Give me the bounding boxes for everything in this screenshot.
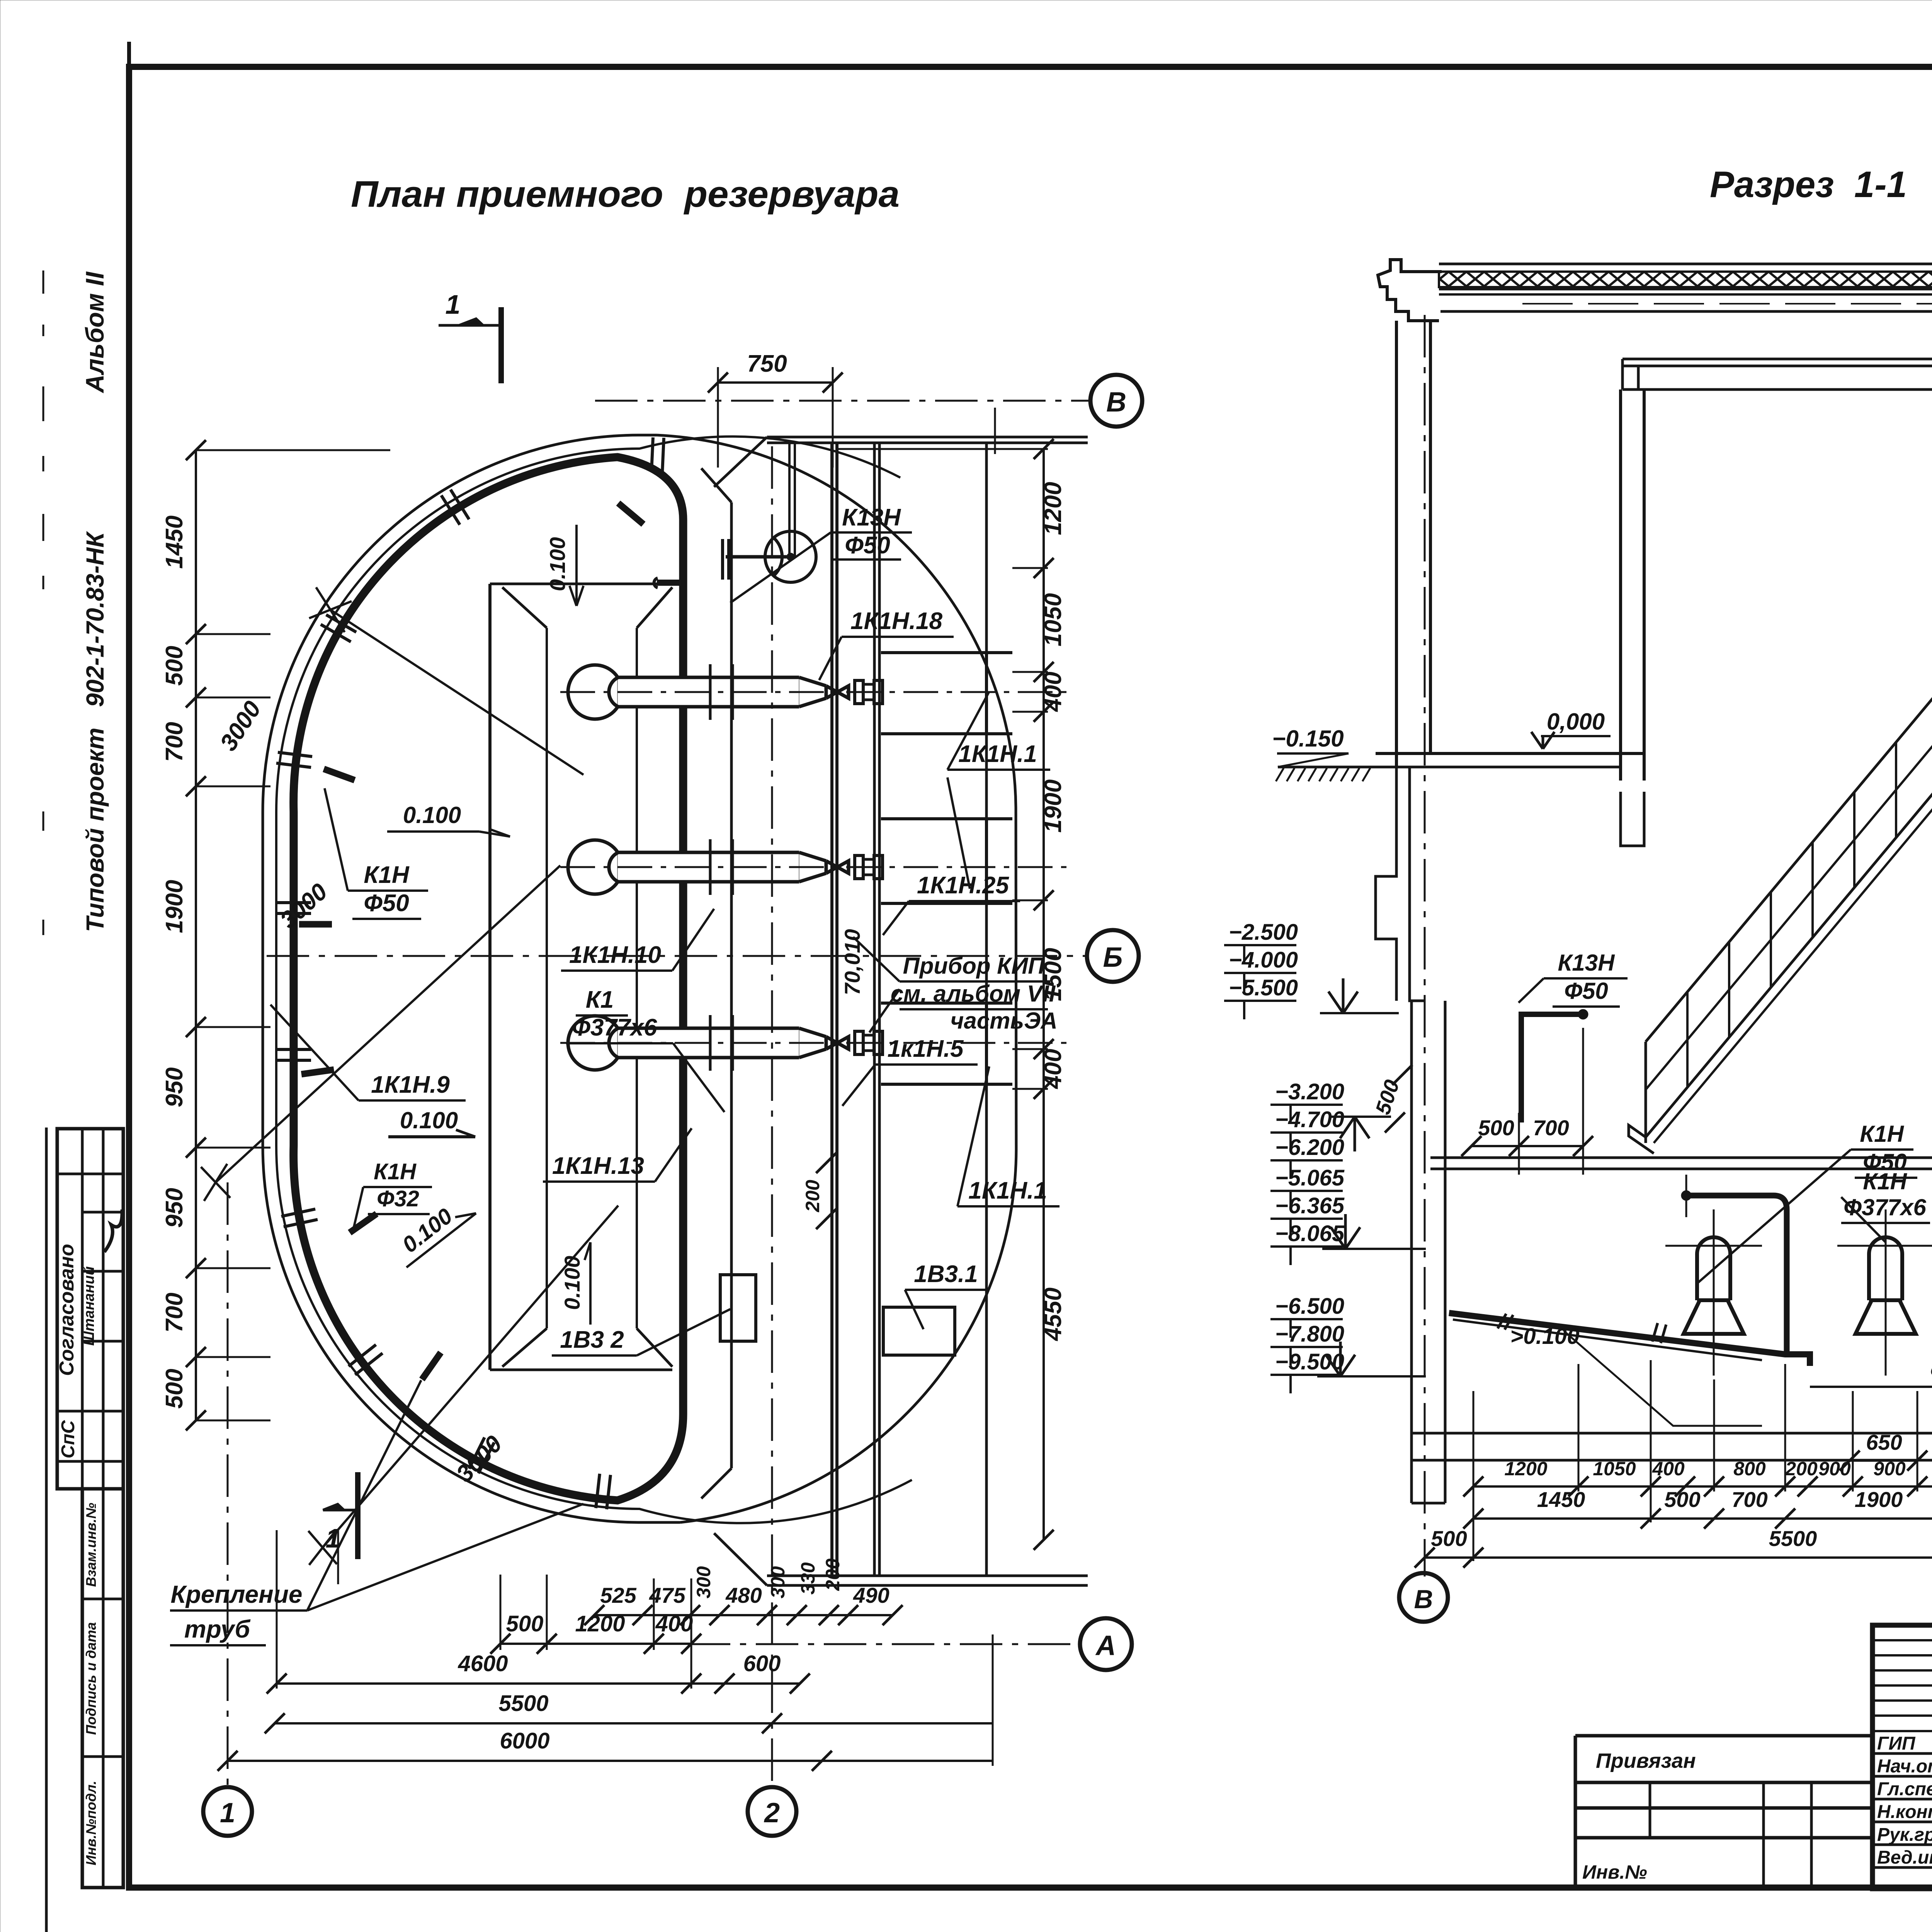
svg-text:Ф50: Ф50 [1564, 978, 1608, 1004]
svg-text:525: 525 [600, 1583, 636, 1607]
pump axis dash-dot y=2244 [560, 866, 1066, 868]
axis V horizontal dash-dot [595, 400, 1090, 402]
niche 1K1N.1 lower [881, 1003, 1012, 1084]
svg-text:Рук.гр.: Рук.гр. [1877, 1825, 1932, 1845]
svg-text:700: 700 [161, 722, 188, 762]
stair bottom foot [1629, 1042, 1654, 1153]
svg-text:−5.500: −5.500 [1229, 975, 1298, 1000]
left wall below ground [1376, 767, 1396, 1001]
svg-text:Н.контр.: Н.контр. [1877, 1802, 1932, 1822]
roof slab lines [1439, 288, 1932, 291]
svg-text:700: 700 [1533, 1116, 1569, 1140]
svg-text:Типовой проект 902-1-70.83-Н: Типовой проект 902-1-70.83-НК [81, 531, 109, 932]
svg-text:Б: Б [1103, 942, 1123, 973]
svg-text:650: 650 [1866, 1430, 1902, 1454]
svg-text:0.100: 0.100 [403, 802, 461, 828]
section mark 1 bottom [323, 1509, 358, 1512]
svg-text:Привязан: Привязан [1596, 1749, 1696, 1772]
niche middle [881, 819, 1012, 903]
svg-text:1К1Н.13: 1К1Н.13 [552, 1153, 644, 1179]
svg-text:1В3 2: 1В3 2 [560, 1327, 624, 1353]
left dimension chain [195, 450, 197, 1420]
svg-text:1: 1 [446, 289, 461, 320]
svg-text:1450: 1450 [161, 515, 188, 569]
svg-text:6000: 6000 [500, 1728, 549, 1753]
svg-text:Гл.спец.: Гл.спец. [1877, 1779, 1932, 1799]
sump funnel bottom [490, 1328, 672, 1370]
svg-text:Прибор КИП: Прибор КИП [903, 953, 1046, 979]
svg-text:1050: 1050 [1593, 1458, 1636, 1480]
svg-text:−5.065: −5.065 [1275, 1165, 1345, 1190]
svg-text:Крепление: Крепление [170, 1580, 302, 1608]
svg-text:частьЭА: частьЭА [950, 1008, 1057, 1034]
wall collar [709, 839, 712, 895]
stair posts [1645, 1042, 1647, 1137]
svg-text:1900: 1900 [1040, 779, 1066, 833]
svg-text:950: 950 [161, 1067, 188, 1107]
reservoir outer wall second line [276, 437, 912, 1523]
reservoir bottom right arc segment [680, 1150, 1016, 1522]
svg-text:1200: 1200 [575, 1611, 625, 1636]
bottom dims row 4 [275, 1722, 993, 1725]
svg-text:1К1Н.1: 1К1Н.1 [958, 741, 1037, 767]
svg-text:300: 300 [767, 1566, 789, 1599]
svg-text:700: 700 [161, 1293, 188, 1332]
ground line left with hatch [1278, 766, 1376, 769]
left cornice [1378, 260, 1442, 321]
svg-text:900: 900 [1818, 1458, 1851, 1480]
pipe clamp stubs [618, 503, 643, 524]
bottom dims row 3 [277, 1682, 800, 1685]
svg-text:Взам.инв.№: Взам.инв.№ [83, 1503, 99, 1587]
svg-text:Нач.отд.: Нач.отд. [1877, 1756, 1932, 1777]
reservoir top right arc segment [657, 435, 1016, 808]
svg-text:Ф32: Ф32 [377, 1186, 419, 1211]
reservoir outer wall oval [263, 435, 680, 1522]
stamp table block 1 [57, 1129, 123, 1489]
pump pipe assembly y=1791 [568, 665, 622, 719]
svg-text:Ф377х6: Ф377х6 [572, 1014, 657, 1041]
axis circle V [1090, 375, 1142, 427]
K13N wall stub [657, 580, 681, 586]
svg-text:А: А [1095, 1630, 1116, 1661]
svg-text:900: 900 [1873, 1458, 1906, 1480]
upper slab band [1622, 358, 1932, 361]
building bottom edge [767, 1575, 1088, 1577]
svg-text:К1Н: К1Н [1860, 1121, 1904, 1147]
axis circle 1 [203, 1787, 252, 1836]
floor slope break ticks [1652, 1323, 1666, 1343]
svg-text:−3.200: −3.200 [1275, 1079, 1344, 1104]
wall collar [709, 664, 712, 720]
svg-text:ГИП: ГИП [1877, 1733, 1916, 1754]
svg-text:План приемного резервуара: План приемного резервуара [351, 173, 900, 215]
section extension verticals [1473, 1391, 1475, 1561]
right dimension chain [1043, 449, 1045, 1540]
section dim row 2 [1473, 1517, 1932, 1520]
svg-text:−2.500: −2.500 [1229, 920, 1298, 945]
bottom dims row 2 [500, 1643, 691, 1645]
axis A horizontal dash-dot [688, 1643, 1080, 1645]
svg-text:330: 330 [797, 1562, 819, 1595]
svg-text:5500: 5500 [1769, 1526, 1817, 1551]
svg-text:1200: 1200 [1040, 482, 1066, 535]
title block small grid [1872, 1639, 1932, 1641]
axis circle B [1087, 930, 1139, 982]
pump pipe assembly y=2699 [568, 1016, 622, 1070]
section dim row 3 [1425, 1556, 1932, 1559]
svg-text:600: 600 [743, 1651, 781, 1676]
svg-text:200: 200 [802, 1180, 823, 1213]
svg-text:К1Н: К1Н [364, 862, 410, 888]
svg-text:Разрез 1-1: Разрез 1-1 [1710, 164, 1907, 205]
privyazan box [1575, 1736, 1872, 1889]
pump axis dash-dot y=2699 [560, 1042, 1066, 1044]
svg-text:−0.150: −0.150 [1272, 726, 1344, 752]
scan artifact dashes [43, 270, 44, 294]
svg-text:480: 480 [725, 1583, 762, 1607]
center sump bottom [1810, 1386, 1932, 1388]
axis circle A [1080, 1618, 1132, 1670]
svg-text:400: 400 [1040, 1049, 1066, 1089]
svg-text:В: В [1106, 387, 1126, 418]
svg-text:1900: 1900 [161, 880, 188, 933]
axis B horizontal dash-dot [267, 955, 1087, 957]
svg-text:1к1Н.5: 1к1Н.5 [888, 1036, 964, 1062]
svg-text:К1: К1 [586, 986, 614, 1013]
650 dim [1850, 1459, 1917, 1462]
svg-text:Инв.№подл.: Инв.№подл. [83, 1781, 99, 1865]
svg-text:500: 500 [1664, 1487, 1700, 1512]
svg-text:−9.500: −9.500 [1275, 1349, 1344, 1374]
svg-text:СпС: СпС [58, 1420, 78, 1458]
interior wall outer face [730, 502, 733, 1468]
building top edge [767, 436, 1088, 439]
pump pipe assembly y=2244 [568, 840, 622, 894]
floor leader lines [1564, 1331, 1762, 1426]
svg-text:400: 400 [1652, 1458, 1685, 1480]
svg-text:800: 800 [1733, 1458, 1766, 1480]
svg-text:К13Н: К13Н [1558, 950, 1616, 976]
svg-text:−4.700: −4.700 [1275, 1107, 1344, 1132]
bottom dims row 5 [228, 1760, 993, 1762]
svg-text:Штананий: Штананий [81, 1266, 97, 1346]
750 dimension [718, 381, 833, 384]
building wall verticals [830, 443, 833, 1576]
500 700 dims [1471, 1145, 1583, 1147]
stamp table block 2 [82, 1489, 123, 1888]
svg-text:500: 500 [1431, 1526, 1467, 1551]
svg-text:1К1Н.9: 1К1Н.9 [371, 1071, 450, 1098]
ground floor left room [1376, 752, 1644, 755]
axis 2 vertical dash-dot [771, 446, 773, 1787]
reservoir right tangent line [1016, 808, 1016, 1150]
svg-text:см. альбом VII: см. альбом VII [891, 981, 1056, 1007]
svg-text:1К1Н.1: 1К1Н.1 [968, 1177, 1047, 1204]
left wall [1395, 321, 1398, 767]
svg-text:200: 200 [822, 1558, 844, 1591]
right chain extension stubs [1012, 567, 1048, 569]
sump funnel top [490, 584, 672, 628]
svg-text:4550: 4550 [1040, 1287, 1066, 1342]
svg-text:1: 1 [220, 1798, 235, 1828]
svg-text:Подпись и дата: Подпись и дата [83, 1622, 99, 1735]
svg-text:В: В [1414, 1585, 1433, 1614]
svg-text:500: 500 [506, 1611, 544, 1636]
bottom dim extension verticals [500, 1575, 502, 1650]
sheet outer edge left [45, 1128, 48, 1932]
gamma pipe 1 [1686, 1196, 1787, 1354]
svg-text:0.100: 0.100 [545, 537, 570, 591]
K13N drain pipe [1521, 1014, 1580, 1122]
svg-text:1В3.1: 1В3.1 [914, 1261, 978, 1287]
inner sump channel left wall [488, 584, 492, 1370]
stamp signature [104, 1209, 122, 1252]
sump inner verticals [546, 628, 548, 1328]
svg-text:500: 500 [161, 646, 188, 685]
suction bell at 4435 [1697, 1237, 1730, 1300]
inner wall [1619, 389, 1622, 781]
svg-text:1К1Н.25: 1К1Н.25 [917, 872, 1010, 899]
svg-text:490: 490 [853, 1583, 889, 1607]
stair mid rail [1646, 738, 1932, 1090]
radius 3000 dimensions [330, 610, 583, 775]
svg-text:1050: 1050 [1040, 593, 1066, 646]
svg-text:70,010: 70,010 [840, 929, 864, 995]
wall collar [709, 1015, 712, 1071]
svg-text:Ф377х6: Ф377х6 [1844, 1194, 1926, 1220]
svg-text:4600: 4600 [457, 1651, 508, 1676]
roof hatched band [1439, 272, 1932, 287]
svg-text:1900: 1900 [1855, 1487, 1903, 1512]
svg-text:1200: 1200 [1504, 1458, 1547, 1480]
svg-text:0,000: 0,000 [1547, 709, 1605, 735]
axis 1 vertical dash-dot [227, 1182, 229, 1787]
svg-text:Согласовано: Согласовано [56, 1244, 78, 1376]
svg-text:500: 500 [1478, 1116, 1514, 1140]
svg-text:2: 2 [764, 1798, 780, 1828]
K13N floor drain circle [765, 531, 816, 582]
axis V section dash-dot [1424, 315, 1426, 1577]
svg-text:5500: 5500 [498, 1691, 548, 1716]
svg-text:200: 200 [1785, 1458, 1818, 1480]
frame top-left nub [127, 42, 131, 67]
niche 1V3.2 rect [720, 1275, 756, 1341]
svg-text:Альбом II: Альбом II [80, 271, 109, 394]
section dim row 1 [1473, 1485, 1932, 1488]
bottom dims row 1 [594, 1614, 893, 1616]
svg-text:−7.800: −7.800 [1275, 1321, 1344, 1347]
pump axis dash-dot y=1791 [560, 691, 1066, 693]
svg-text:К1Н: К1Н [374, 1159, 417, 1184]
svg-text:Ф50: Ф50 [845, 532, 890, 559]
slab at -3.200 [1430, 1156, 1932, 1159]
svg-text:−6.500: −6.500 [1275, 1294, 1344, 1319]
section grid circles [1399, 1573, 1448, 1622]
foundation slab lines [1412, 1432, 1932, 1435]
svg-text:500: 500 [161, 1369, 188, 1408]
K13N standpipe verticals [788, 443, 791, 557]
svg-text:400: 400 [1040, 672, 1066, 712]
section mark 1 top [439, 324, 498, 327]
svg-text:−6.200: −6.200 [1275, 1135, 1344, 1160]
axis circle 2 [748, 1787, 796, 1836]
stair top rail [1646, 691, 1932, 1042]
svg-text:К13Н: К13Н [842, 504, 901, 531]
suction bell at 4880 [1869, 1237, 1902, 1300]
reservoir inner wall thick stadium [294, 457, 683, 1500]
svg-text:−6.365: −6.365 [1275, 1193, 1345, 1218]
niche 1K1N.1 upper [881, 653, 1012, 734]
svg-text:Вед.инж.: Вед.инж. [1877, 1847, 1932, 1868]
svg-text:0.100: 0.100 [400, 1107, 458, 1133]
svg-text:−4.000: −4.000 [1229, 947, 1298, 973]
svg-text:К1Н: К1Н [1863, 1168, 1907, 1194]
svg-text:700: 700 [1731, 1487, 1767, 1512]
niche 1V3.1 rect [883, 1307, 955, 1355]
stair stringer [1646, 786, 1932, 1137]
svg-text:750: 750 [747, 350, 787, 377]
svg-text:950: 950 [161, 1188, 188, 1228]
wall hatch ticks [662, 438, 664, 473]
sloped floor left thick [1449, 1313, 1810, 1366]
svg-text:1К1Н.10: 1К1Н.10 [569, 942, 661, 968]
svg-text:300: 300 [693, 1566, 714, 1599]
svg-text:0.100: 0.100 [560, 1256, 584, 1310]
svg-text:Ф50: Ф50 [364, 890, 409, 917]
svg-text:Инв.№: Инв.№ [1582, 1861, 1647, 1883]
svg-text:труб: труб [184, 1615, 251, 1643]
svg-text:1К1Н.18: 1К1Н.18 [850, 608, 943, 634]
roof top line [1439, 263, 1932, 265]
K13N pipe lines [726, 555, 787, 559]
svg-text:400: 400 [655, 1611, 693, 1636]
